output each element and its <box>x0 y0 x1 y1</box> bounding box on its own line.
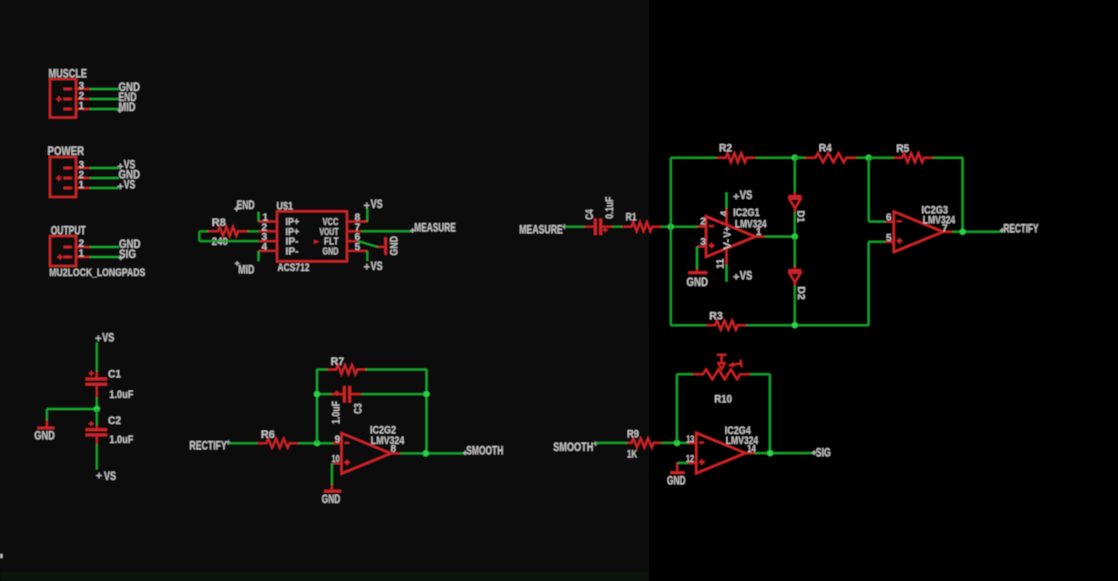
wire feedback right vertical (G4) <box>769 374 771 453</box>
pin number 2 (MUSCLE) <box>79 91 85 102</box>
svg-text:C2: C2 <box>108 415 121 427</box>
resistor R9 <box>627 438 661 447</box>
wire pin8 to +VS <box>366 208 368 222</box>
pin name FLT <box>324 237 339 248</box>
diode D1 <box>788 192 801 213</box>
net label MEASURE (rectifier in) <box>519 222 567 236</box>
svg-text:POWER: POWER <box>48 144 85 158</box>
net label END (muscle) <box>119 90 137 104</box>
value ACS712 <box>278 262 310 274</box>
label U$1 <box>277 200 294 212</box>
wire R10 to right vertical <box>750 373 770 375</box>
value 240 (R8) <box>212 236 228 248</box>
net label SIG (output) <box>119 247 136 261</box>
label C4 (rotated) <box>584 209 596 220</box>
pin number 1 (IC2G1) <box>756 227 762 238</box>
ground symbol (C1/C2) <box>34 409 55 442</box>
svg-text:1: 1 <box>79 180 85 191</box>
wire node to R5 <box>869 157 894 159</box>
wire pin5 to -VS <box>366 251 368 261</box>
svg-text:4: 4 <box>262 242 268 253</box>
svg-text:GND: GND <box>34 428 55 442</box>
svg-text:RECTIFY: RECTIFY <box>189 439 227 453</box>
label C1 <box>108 369 121 381</box>
svg-text:1.0uF: 1.0uF <box>109 389 133 401</box>
svg-text:MU2LOCK_LONGPADS: MU2LOCK_LONGPADS <box>49 267 145 279</box>
wire +VS to C1 <box>96 342 98 371</box>
label R9 <box>627 429 639 441</box>
wire R8 left loop <box>199 231 258 241</box>
svg-text:LMV324: LMV324 <box>735 219 767 231</box>
svg-text:VS: VS <box>371 197 383 211</box>
pin number 8 (IC2G2) <box>391 444 397 455</box>
pin number 6 (U$1) <box>355 232 361 243</box>
wire corner up to IC2G3 pin5 <box>869 242 886 326</box>
wire pin6 to ground (diagonal) <box>358 241 378 247</box>
pin name IP- (3) <box>286 237 299 248</box>
svg-text:9: 9 <box>335 435 341 446</box>
wire POWER pin2 to GND <box>90 177 119 179</box>
svg-text:0.1uF: 0.1uF <box>604 196 616 218</box>
value 1.0uF (C2) <box>109 434 133 446</box>
wire mid node to D2 <box>794 237 796 266</box>
wire node to GND corner <box>47 408 97 410</box>
svg-text:GND: GND <box>323 247 339 258</box>
label IC2G4 <box>725 425 752 437</box>
wire top node to D1 <box>794 158 796 192</box>
wire feedback vertical left <box>670 158 672 326</box>
resistor R8 <box>208 227 248 236</box>
svg-text:R5: R5 <box>896 143 909 155</box>
svg-text:IP-: IP- <box>286 247 299 258</box>
svg-text:RECTIFY: RECTIFY <box>1004 222 1039 236</box>
capacitor C3 <box>331 386 361 403</box>
pin number 11 (IC2G1, rotated) <box>715 258 726 268</box>
pin number 10 (IC2G2) <box>332 454 340 465</box>
svg-text:VS: VS <box>740 268 753 282</box>
svg-text:IC2G1: IC2G1 <box>733 207 760 219</box>
label R2 <box>719 143 732 155</box>
junction R2-D1-R4 <box>792 155 798 161</box>
wire pin7 to MEASURE <box>361 230 413 232</box>
capacitor C2 <box>86 421 108 444</box>
svg-text:R9: R9 <box>627 429 639 441</box>
pin number 13 (IC2G4) <box>686 434 694 445</box>
wire IC2G3 output to RECTIFY <box>953 231 1002 233</box>
capacitor C1 <box>86 371 108 397</box>
wire R2 to D1 top node <box>756 157 795 159</box>
supply label +VS (U$1) <box>364 197 383 211</box>
junction R9-feedback node <box>674 440 680 446</box>
value 1.0uF (C1) <box>109 389 133 401</box>
junction C3 left <box>314 391 320 397</box>
value 0.1uF (C4, rotated) <box>604 196 616 218</box>
svg-text:D1: D1 <box>795 211 806 223</box>
svg-text:LMV324: LMV324 <box>371 435 405 447</box>
supply label +VS (IC2G1) <box>733 188 752 202</box>
svg-text:VS: VS <box>102 330 114 344</box>
op-amp IC2G1 <box>698 216 765 256</box>
pin label V- (rotated) <box>723 239 734 250</box>
ground symbol (IC2G1) <box>687 269 709 290</box>
pin number 1 (U$1) <box>263 213 269 224</box>
wire IC2G2 output to SMOOTH <box>400 452 464 454</box>
svg-text:MEASURE: MEASURE <box>519 222 563 236</box>
wire C4 to R1 <box>612 226 622 228</box>
diode D2 <box>788 266 801 286</box>
svg-text:R6: R6 <box>261 429 275 441</box>
wire R4 to R5 node <box>857 157 869 159</box>
bottom-left light band <box>0 572 649 581</box>
svg-text:VS: VS <box>124 177 136 191</box>
svg-text:R7: R7 <box>331 356 345 368</box>
wire MID to pin4 <box>258 251 260 261</box>
svg-text:5: 5 <box>886 233 892 244</box>
pin number 1 (OUTPUT) <box>79 249 85 260</box>
wire RECTIFY to R6 <box>228 442 257 444</box>
svg-text:D2: D2 <box>795 286 806 300</box>
svg-text:6: 6 <box>886 213 892 224</box>
svg-text:SIG: SIG <box>119 247 136 261</box>
op-amp IC2G3 <box>885 212 952 252</box>
power pin 4 wire <box>726 192 728 224</box>
supply label -VS (C2 bottom) <box>96 469 116 483</box>
wire MUSCLE pin2 to END <box>90 98 119 100</box>
svg-text:R1: R1 <box>626 212 637 224</box>
wire top node to R4 <box>795 157 805 159</box>
label R7 <box>331 356 345 368</box>
ground symbol (U$1 pin6, rotated) <box>378 236 401 256</box>
pin number 2 (U$1) <box>262 222 268 233</box>
connector OUTPUT label <box>51 224 86 238</box>
wire to R10 <box>677 373 693 375</box>
svg-text:5: 5 <box>355 242 361 253</box>
pin number 4 (U$1) <box>262 242 268 253</box>
svg-text:10: 10 <box>332 454 340 465</box>
junction node C1-C2 <box>94 406 100 412</box>
white speck left edge <box>0 554 3 558</box>
wire R6 to IC2G2 pin9 <box>298 442 333 444</box>
svg-text:14: 14 <box>747 444 756 455</box>
svg-text:MID: MID <box>119 100 136 114</box>
svg-text:GND: GND <box>667 474 686 488</box>
svg-text:VS: VS <box>104 469 116 483</box>
pin number 3 (U$1) <box>262 232 268 243</box>
supply label END (U$1 pin1) <box>234 198 255 212</box>
op-amp IC2G4 <box>688 433 755 473</box>
pin name IP+ (1) <box>286 217 300 228</box>
svg-text:END: END <box>237 198 255 212</box>
wire MUSCLE pin1 to MID <box>90 108 119 110</box>
svg-text:1: 1 <box>79 249 85 260</box>
net label GND (muscle) <box>119 80 141 94</box>
svg-text:1.0uF: 1.0uF <box>109 434 133 446</box>
resistor R2 <box>716 153 756 162</box>
background right panel <box>649 0 1118 581</box>
resistor R5 <box>894 153 933 162</box>
label IC2G1 <box>733 207 760 219</box>
net label SIG (out) <box>812 446 831 460</box>
pin number 5 (U$1) <box>355 242 361 253</box>
wire POWER pin3 to +VS <box>90 167 119 169</box>
pin number 3 (POWER) <box>79 160 85 171</box>
net label GND (output) <box>119 237 141 251</box>
svg-text:13: 13 <box>686 434 694 445</box>
pin number 8 (U$1) <box>355 213 361 224</box>
svg-text:GND: GND <box>388 236 400 256</box>
pin number 2 (IC2G1) <box>700 217 706 228</box>
pin number 7 (U$1) <box>355 222 361 233</box>
pin number 3 (MUSCLE) <box>79 81 85 92</box>
pin number 3 (IC2G1) <box>700 237 706 248</box>
supply label -VS (IC2G1) <box>733 268 752 282</box>
value LMV324 (IC2G4) <box>726 435 759 447</box>
svg-text:2: 2 <box>700 217 706 228</box>
value LMV324 (IC2G2) <box>371 435 405 447</box>
svg-text:1.0uF: 1.0uF <box>330 401 342 424</box>
pin name IP+ (2) <box>286 227 300 238</box>
pin number 14 (IC2G4) <box>747 444 756 455</box>
wire R1 to node A <box>661 226 697 228</box>
wire R5 to output column <box>933 158 963 232</box>
wire IC2G1 pin3 to GND <box>696 247 698 269</box>
potentiometer R10 (trimmer) <box>693 355 750 380</box>
label R1 <box>626 212 637 224</box>
svg-text:VS: VS <box>740 188 753 202</box>
wire MUSCLE pin3 to GND <box>90 88 119 90</box>
value LMV324 (IC2G1) <box>735 219 767 231</box>
junction R6-feedback node <box>314 440 320 446</box>
pin number 9 (IC2G2) <box>335 435 341 446</box>
svg-text:C1: C1 <box>108 369 121 381</box>
svg-text:GND: GND <box>687 275 709 289</box>
svg-text:ACS712: ACS712 <box>278 262 310 274</box>
wire R7 to right vertical <box>366 369 427 371</box>
pin name VCC <box>323 217 339 228</box>
wire IC2G4 output to SIG <box>755 452 814 454</box>
svg-text:1: 1 <box>79 101 85 112</box>
background left panel <box>0 0 649 581</box>
label IC2G3 <box>922 205 949 217</box>
resistor R6 <box>257 439 298 448</box>
wire POWER pin1 to -VS <box>90 187 119 189</box>
junction node A (inverting input) <box>668 224 674 230</box>
op-amp IC2G2 <box>333 433 400 473</box>
wire node A column to R3 <box>671 324 706 326</box>
wire R3 to bottom-right corner <box>747 324 869 326</box>
wire C1 to node <box>96 397 98 409</box>
label R3 <box>709 311 723 323</box>
wire D1 to mid node <box>794 212 796 236</box>
label R10 <box>714 393 732 405</box>
pin number 4 (IC2G1, rotated) <box>719 210 730 216</box>
svg-text:VS: VS <box>371 259 383 273</box>
connector OUTPUT (2-pin header) <box>50 236 90 266</box>
net label SMOOTH (in) <box>553 440 598 454</box>
label R5 <box>896 143 909 155</box>
wire D2 to bottom node <box>794 286 796 325</box>
label D1 (rotated) <box>795 211 806 223</box>
wire feedback left vertical (G4) <box>676 374 678 443</box>
wire OUTPUT pin2 to GND <box>90 246 119 248</box>
value 1K (R9) <box>627 448 637 460</box>
wire feedback left vertical (G2) <box>316 370 318 444</box>
label R4 <box>819 142 833 154</box>
junction IC2G3 output node <box>960 229 966 235</box>
pin number 2 (POWER) <box>79 170 85 181</box>
value 1.0uF (C3, rotated) <box>330 401 342 424</box>
pin name VOUT <box>320 227 339 238</box>
svg-text:LMV324: LMV324 <box>923 214 956 226</box>
svg-text:C4: C4 <box>584 209 596 220</box>
value LMV324 (IC2G3) <box>923 214 956 226</box>
svg-text:MID: MID <box>238 262 254 276</box>
supply label +VS (power) <box>118 158 136 172</box>
svg-text:V-: V- <box>723 239 734 250</box>
wire feedback right vertical (G2) <box>426 370 428 454</box>
pin number 12 (IC2G4) <box>686 454 694 465</box>
svg-text:SIG: SIG <box>816 446 831 460</box>
wire C3 row left <box>317 393 331 395</box>
power pin 11 wire <box>726 249 728 282</box>
resistor R4 <box>805 153 857 162</box>
wire to R7 <box>317 369 327 371</box>
svg-text:1K: 1K <box>627 448 637 460</box>
svg-text:7: 7 <box>942 224 948 235</box>
resistor R3 <box>706 321 746 330</box>
label R6 <box>261 429 275 441</box>
svg-text:SMOOTH: SMOOTH <box>466 443 503 457</box>
svg-text:GND: GND <box>322 492 341 506</box>
ground symbol (IC2G2) <box>322 463 341 506</box>
supply label MID (U$1 pin4) <box>235 261 255 276</box>
pin name IP- (4) <box>286 247 299 258</box>
pin number 5 (IC2G3) <box>886 233 892 244</box>
svg-text:8: 8 <box>391 444 397 455</box>
wire C3 row right <box>361 393 426 395</box>
wire IC2G4 pin12 jog <box>677 462 688 464</box>
wire R8 to pin2 <box>248 230 259 232</box>
resistor R7 <box>327 365 366 374</box>
pin number 7 (IC2G3) <box>942 224 948 235</box>
supply label -VS (power) <box>118 177 136 191</box>
wire IC2G1 output to diode node <box>765 236 795 238</box>
svg-text:U$1: U$1 <box>277 200 294 212</box>
label IC2G2 <box>370 425 396 437</box>
resistor R1 <box>622 222 661 231</box>
wire node A to R2 <box>671 157 717 159</box>
svg-text:1: 1 <box>756 227 762 238</box>
svg-text:C3: C3 <box>352 403 364 414</box>
svg-text:R4: R4 <box>819 142 833 154</box>
wire R4R5 node down to IC2G3 pin6 <box>869 158 886 222</box>
wire node to C2 <box>96 409 98 425</box>
net label RECTIFY (in) <box>189 439 230 453</box>
supply label +VS (C1 top) <box>96 330 115 344</box>
junction IC2G2 output node <box>423 450 429 456</box>
label R8 <box>212 217 226 229</box>
IC U$1 ACS712 body <box>259 211 367 261</box>
net label GND (power) <box>119 167 141 181</box>
supply label -VS (U$1) <box>364 259 383 273</box>
wire OUTPUT pin1 to SIG <box>90 256 119 258</box>
junction C3 right <box>423 391 429 397</box>
pin number 6 (IC2G3) <box>886 213 892 224</box>
svg-text:R2: R2 <box>719 143 732 155</box>
wire END to pin1 <box>258 212 260 222</box>
label C2 <box>108 415 121 427</box>
net label SMOOTH (out) <box>463 443 503 457</box>
net label MEASURE (U$1 out) <box>410 220 455 234</box>
pin number 1 (POWER) <box>79 180 85 191</box>
label C3 (rotated) <box>352 403 364 414</box>
svg-text:4: 4 <box>719 210 730 216</box>
net label RECTIFY (out) <box>1000 222 1038 236</box>
connector MUSCLE (3-pin header) <box>50 79 90 118</box>
junction R4-R5 <box>866 155 872 161</box>
capacitor C4 <box>584 219 612 236</box>
connector POWER label <box>48 144 85 158</box>
wire SMOOTH to R9 <box>596 442 627 444</box>
wire C2 to -VS <box>96 444 98 469</box>
svg-text:R8: R8 <box>212 217 226 229</box>
pin number 1 (MUSCLE) <box>79 101 85 112</box>
svg-text:MEASURE: MEASURE <box>414 220 456 234</box>
svg-text:R3: R3 <box>709 311 723 323</box>
pin label V+ (rotated) <box>723 226 734 237</box>
junction D2-R3 node <box>792 322 798 328</box>
pin number 2 (OUTPUT) <box>79 239 85 250</box>
connector MUSCLE label <box>49 67 88 81</box>
svg-text:11: 11 <box>715 258 726 268</box>
svg-text:R10: R10 <box>714 393 732 405</box>
svg-text:V+: V+ <box>723 226 734 237</box>
pin name GND (chip) <box>323 247 339 258</box>
ground symbol (IC2G4) <box>667 463 686 488</box>
net label MID (muscle) <box>118 100 136 114</box>
wire MEASURE to C4 <box>565 226 585 228</box>
svg-text:3: 3 <box>700 237 706 248</box>
label D2 (rotated) <box>795 286 806 300</box>
junction IC2G4 output node <box>767 450 773 456</box>
wire R9 to IC2G4 pin13 <box>661 442 688 444</box>
connector POWER (3-pin header) <box>50 157 90 197</box>
svg-text:SMOOTH: SMOOTH <box>553 440 593 454</box>
junction diode mid node <box>792 234 798 240</box>
value label MU2LOCK_LONGPADS <box>49 267 145 279</box>
